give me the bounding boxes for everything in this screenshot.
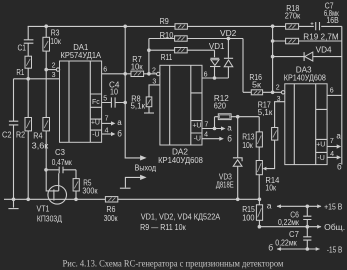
wire DA3 pin3 to R17 to R14 wiper [264,102,285,169]
label C3 [52,147,72,167]
node R4 C3 gate junction [44,168,48,172]
capacitor C1 [24,40,34,43]
output ground arrow head [140,175,147,180]
svg-text:3: 3 [277,96,281,103]
ground output [120,187,131,189]
svg-text:R2: R2 [16,130,25,140]
wire VD2 leads [227,39,229,79]
node DA1 out output column junction [123,72,127,76]
svg-text:+U: +U [192,123,201,130]
wire DA2 pin7 R12 vertical [215,117,219,129]
label C7 top [324,1,339,26]
wire DA1 pin3 line [14,78,60,80]
label R18 [285,3,301,21]
capacitor C7 top [311,21,322,32]
label R7 [131,54,143,71]
transistor VT1 [48,186,67,205]
node obsh R15 junction [258,225,262,229]
wire R14 to bus [258,175,260,200]
node top rail feedback junction [271,24,275,28]
svg-text:5: 5 [103,96,107,103]
node R7 R10 R11 DA2 pin2 junction [147,72,151,76]
svg-text:100: 100 [242,213,255,223]
svg-text:R4: R4 [33,130,43,140]
label R13 [242,131,255,149]
node minus15 C7 junction [306,247,310,251]
wire DA2 pin3 to R8 [149,85,160,97]
svg-text:7: 7 [205,122,209,129]
svg-text:a: a [267,200,272,210]
minus15 arrows [277,247,320,251]
label C7 bottom [275,229,299,247]
node bus R5 junction [74,198,78,202]
svg-text:16В: 16В [326,15,339,25]
node bus C2 junction [12,198,16,202]
svg-text:C2: C2 [2,130,12,140]
capacitor C4 [111,97,115,107]
wire VT1 drain stub [54,173,59,191]
label R12 [214,93,229,111]
diode VD2 [224,58,233,67]
wire DA2 pin6 line [202,77,228,79]
svg-text:+U: +U [91,120,100,127]
wire VD4 line [273,56,342,58]
node R19 feedback junction [271,39,275,43]
wire VD3 column [237,117,239,200]
wire R2 column [27,79,29,200]
svg-text:R11: R11 [161,52,173,62]
svg-text:Д818Е: Д818Е [216,179,234,189]
svg-text:6: 6 [103,66,107,73]
resistor R5 [73,179,79,191]
label R6 [104,204,118,223]
op-amp DA3 [281,84,327,165]
resistor R9 [175,24,187,30]
svg-text:R9: R9 [160,16,169,26]
svg-text:2: 2 [152,67,156,74]
pin 4 arrow DA2 to b [202,137,224,141]
wire R8 to ground [148,107,150,113]
svg-text:5,1к: 5,1к [131,101,146,111]
resistor R15 [256,205,262,221]
node C4 output column junction [123,101,127,105]
label C4 [109,80,120,97]
pin labels DA3 [276,85,334,159]
capacitor C3 [59,167,63,174]
svg-text:3,6к: 3,6к [32,140,49,150]
svg-text:б: б [117,130,122,139]
label R8 [131,93,146,110]
resistor R6 [105,197,117,202]
zener VD3 [233,158,242,167]
svg-text:R10: R10 [160,30,174,40]
svg-text:10к: 10к [50,36,61,46]
obsh arrow [317,225,321,229]
pin labels DA2 [152,67,209,138]
wire minus15 line [277,248,319,250]
svg-text:VD2: VD2 [220,28,237,38]
node DA1 pin2 R3 R4 junction [44,68,48,72]
op-amp DA2 [157,65,203,145]
wire DA1 pin2 line [46,69,56,71]
svg-text:+15 В: +15 В [324,202,342,212]
svg-text:7: 7 [330,138,334,145]
wire right bus [341,26,343,164]
resistor R16 [251,90,262,95]
pin labels DA1 [52,62,109,134]
wire R15 leads [258,199,260,226]
capacitor C2 [9,121,18,125]
svg-text:Общ.: Общ. [324,222,345,232]
label DA1 [61,42,102,60]
svg-text:a: a [117,118,122,127]
svg-text:+U: +U [316,141,325,148]
svg-text:-15 В: -15 В [327,245,343,255]
pin 4 arrow DA1 to b [102,132,116,136]
svg-text:300к: 300к [104,213,118,223]
svg-text:10к: 10к [265,182,276,192]
svg-text:Рис. 4.13. Схема RC-генератора: Рис. 4.13. Схема RC-генератора с прецизи… [63,258,284,268]
svg-text:VD1: VD1 [209,41,225,51]
node DA2 pin7 R12 junction [213,127,217,131]
svg-text:10к: 10к [242,140,253,150]
label DA3 [284,64,326,82]
svg-text:10к: 10к [131,61,143,71]
wire R19 line [273,40,342,42]
resistor R17 [272,128,278,141]
wire R5 bottom lead [75,191,77,199]
wire ground left stub [13,199,15,207]
svg-text:C3: C3 [55,147,65,157]
svg-text:3: 3 [52,72,56,79]
node DA2 out VD1 junction [213,76,217,80]
label C6 [278,210,299,227]
svg-text:5к: 5к [252,80,261,90]
ground bottom left [8,208,18,210]
node obsh C6 C7 junction [306,225,310,229]
wire plus15 line [277,205,321,207]
resistor R8 [146,97,152,107]
svg-text:б: б [268,243,273,253]
svg-text:0,22мк: 0,22мк [278,217,299,227]
plus15 arrows [277,204,322,208]
svg-text:R19 2,7М: R19 2,7М [303,32,338,42]
resistor R3 [43,37,50,51]
wire R16 line DA3 pin2 [243,91,281,93]
label R15 [242,204,255,223]
svg-text:300к: 300к [82,186,97,196]
svg-text:2: 2 [276,85,280,92]
resistor R14 [256,161,266,175]
wire R10 R11 vertical to DA2 pin2 node [148,39,150,74]
wire R10 line [149,39,243,93]
node bus R14 R15 junction [258,198,262,202]
node top rail output column junction [123,25,127,29]
wire C3 leads [46,170,76,179]
svg-text:R1: R1 [16,67,24,77]
svg-text:a: a [336,132,341,141]
resistor R19 [286,38,299,44]
wire C6 leads [306,206,308,226]
node R10 VD2 junction [227,37,231,41]
svg-text:-U: -U [317,155,324,162]
label R3 [50,28,61,47]
pin 4 arrow DA3 to b [327,155,341,159]
svg-text:a: a [227,123,232,132]
svg-text:VD1, VD2, VD4 КД522А: VD1, VD2, VD4 КД522А [141,212,221,222]
node DA1 pin3 R1 R2 junction [26,77,30,81]
label VD3 [216,171,234,189]
svg-text:КР140УД608: КР140УД608 [158,155,203,165]
resistor R18 [286,24,299,30]
label R17 [258,99,273,117]
svg-text:620: 620 [214,101,227,111]
svg-text:0,47мк: 0,47мк [52,157,72,167]
svg-text:6: 6 [204,71,208,78]
svg-text:Fc: Fc [92,99,100,106]
output arrow Vyhod [140,155,147,160]
diode VD1 [210,58,220,66]
wire R12 to R13 [231,117,259,132]
svg-text:10: 10 [110,86,118,96]
wire VD1 leads [214,67,216,79]
node DA3 pin2 R16 junction [271,91,275,95]
svg-text:б: б [227,134,232,143]
node VD4 feedback junction [271,55,275,59]
capacitor C7 bottom [303,237,311,240]
wire DA1 pin6 to R7 to DA2 pin2 [102,73,157,75]
wire R3 column [45,26,47,69]
svg-text:4: 4 [330,151,334,158]
resistor R10 [175,36,188,41]
ground under R8 [144,112,154,114]
svg-text:КР140УД608: КР140УД608 [284,72,326,82]
capacitor C6 [303,216,311,219]
wire output column from top rail to Vyhod [125,26,140,158]
svg-text:4: 4 [105,127,109,134]
resistor R7 [131,71,144,76]
wire C1 R1 column [27,26,29,78]
resistor R12 [218,114,231,120]
pin 7 arrow DA2 to a [202,126,226,130]
wire bottom bus [4,198,259,200]
wire obsh line [259,226,321,228]
wire top rail [28,25,342,27]
svg-text:-U: -U [92,132,99,139]
pin 7 arrow DA3 to a [327,144,341,148]
label VT1 [37,204,63,224]
svg-text:Выход: Выход [135,163,157,173]
resistor R11 [175,48,188,53]
op-amp DA1 [56,61,101,142]
node plus15 C6 junction [306,205,310,209]
svg-text:КП303Д: КП303Д [37,213,62,223]
svg-text:VD4: VD4 [316,45,332,55]
wire R11 line [149,50,215,57]
svg-text:VT1: VT1 [37,204,50,214]
node bus R2 junction [26,198,30,202]
svg-text:5,1к: 5,1к [258,107,273,117]
wire C2 column [13,79,15,200]
resistor R13 [256,132,262,147]
svg-text:C1: C1 [18,42,27,52]
wire DA1 pin5 C4 [102,102,126,104]
label R16 [249,72,262,90]
resistor R2 [25,118,32,131]
svg-text:6: 6 [330,87,334,94]
wire feedback vertical DA3 [272,26,274,92]
node R12 VD3 R13 junction [236,115,240,119]
wire C7 bottom leads [306,227,308,249]
wire R4 column to gate [46,70,54,191]
svg-text:3: 3 [152,79,156,86]
label R4 [32,130,49,150]
label DA2 [158,147,203,165]
resistor R1 [25,56,32,68]
label R5 [82,178,97,196]
svg-text:б: б [337,163,342,172]
node bus VD3 junction [236,198,240,202]
svg-text:-U: -U [194,135,201,142]
svg-text:7: 7 [105,116,109,123]
svg-text:4: 4 [204,132,208,139]
svg-text:КР574УД1А: КР574УД1А [61,50,102,60]
wire DA3 pin6 [327,94,342,96]
svg-text:R9 — R11 10к: R9 — R11 10к [140,222,186,232]
pin 7 arrow DA1 to a [102,121,116,125]
node top rail R3 junction [44,24,48,28]
wire R13 to R14 [258,147,260,161]
node R11 left junction [147,48,151,52]
svg-text:270к: 270к [285,11,301,21]
resistor R4 [43,118,50,131]
svg-text:0,22мк: 0,22мк [275,238,297,248]
label R14 [265,175,279,192]
diode VD4 [304,52,313,61]
wire output ground arrow [125,177,140,187]
svg-text:2: 2 [52,62,56,69]
